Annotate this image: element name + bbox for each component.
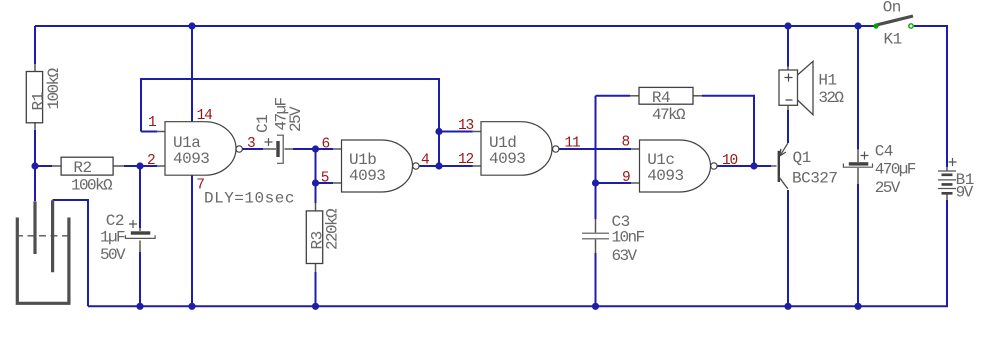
svg-text:4093: 4093 [647, 167, 683, 185]
svg-text:8: 8 [621, 135, 629, 151]
svg-text:63V: 63V [612, 247, 638, 265]
svg-text:100kΩ: 100kΩ [45, 67, 63, 109]
svg-text:50V: 50V [100, 246, 126, 264]
svg-text:220kΩ: 220kΩ [324, 208, 342, 250]
svg-text:12: 12 [458, 152, 474, 168]
svg-text:10: 10 [722, 153, 738, 169]
svg-text:25V: 25V [287, 106, 305, 132]
svg-text:3: 3 [247, 136, 255, 152]
svg-text:9V: 9V [956, 184, 974, 202]
svg-text:100kΩ: 100kΩ [71, 177, 113, 195]
svg-text:14: 14 [197, 108, 213, 124]
svg-text:On: On [883, 0, 901, 17]
svg-text:R4: R4 [652, 89, 670, 107]
svg-text:4: 4 [421, 153, 429, 169]
svg-text:47kΩ: 47kΩ [652, 106, 686, 124]
svg-text:C1: C1 [254, 115, 272, 133]
svg-text:470µF: 470µF [875, 161, 916, 179]
svg-text:4093: 4093 [173, 150, 209, 168]
svg-text:R2: R2 [73, 159, 91, 177]
svg-text:1µF: 1µF [100, 228, 125, 246]
svg-text:11: 11 [565, 136, 581, 152]
svg-text:32Ω: 32Ω [818, 89, 844, 107]
svg-text:13: 13 [458, 118, 474, 134]
svg-text:C2: C2 [106, 212, 124, 230]
svg-text:BC327: BC327 [792, 170, 838, 188]
svg-text:25V: 25V [875, 179, 901, 197]
svg-text:Q1: Q1 [793, 149, 811, 167]
svg-text:6: 6 [321, 137, 329, 153]
svg-text:H1: H1 [818, 71, 836, 89]
svg-text:K1: K1 [884, 31, 902, 49]
svg-text:1: 1 [148, 115, 156, 131]
svg-text:7: 7 [196, 178, 204, 194]
svg-text:DLY=10sec: DLY=10sec [204, 189, 295, 207]
svg-text:4093: 4093 [349, 167, 385, 185]
svg-text:10nF: 10nF [612, 229, 645, 247]
svg-text:C4: C4 [875, 143, 893, 161]
svg-text:2: 2 [147, 153, 155, 169]
svg-text:4093: 4093 [489, 150, 525, 168]
svg-text:5: 5 [321, 171, 329, 187]
svg-text:9: 9 [622, 170, 630, 186]
